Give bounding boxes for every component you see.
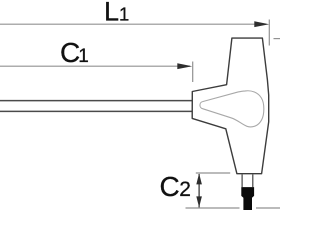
- dimension line L1: [0, 23, 266, 25]
- C2 arrowhead up: [196, 173, 202, 184]
- svg-text:C1: C1: [60, 37, 89, 68]
- extension line for L1: [268, 20, 270, 46]
- arrowhead C1: [177, 63, 192, 69]
- shaft bottom line: [0, 110, 192, 112]
- blade collar right line: [252, 174, 254, 187]
- svg-text:L1: L1: [104, 0, 129, 27]
- black hex tip: [241, 187, 254, 210]
- svg-text:C2: C2: [160, 171, 191, 202]
- blade collar left line: [241, 174, 243, 187]
- grip contour (teardrop): [200, 91, 264, 127]
- C2 dimension line: [198, 174, 200, 207]
- C2 arrowhead down: [196, 196, 202, 207]
- C2 bottom reference line right: [256, 207, 280, 209]
- dimension line C1: [0, 65, 190, 67]
- extension line for C1: [192, 62, 194, 83]
- tick at right edge: [274, 38, 281, 40]
- C2 top reference line: [196, 172, 230, 174]
- C2 bottom reference line left: [186, 207, 240, 209]
- arrowhead L1: [254, 21, 269, 27]
- handle outline: [192, 38, 269, 174]
- shaft top line: [0, 100, 192, 102]
